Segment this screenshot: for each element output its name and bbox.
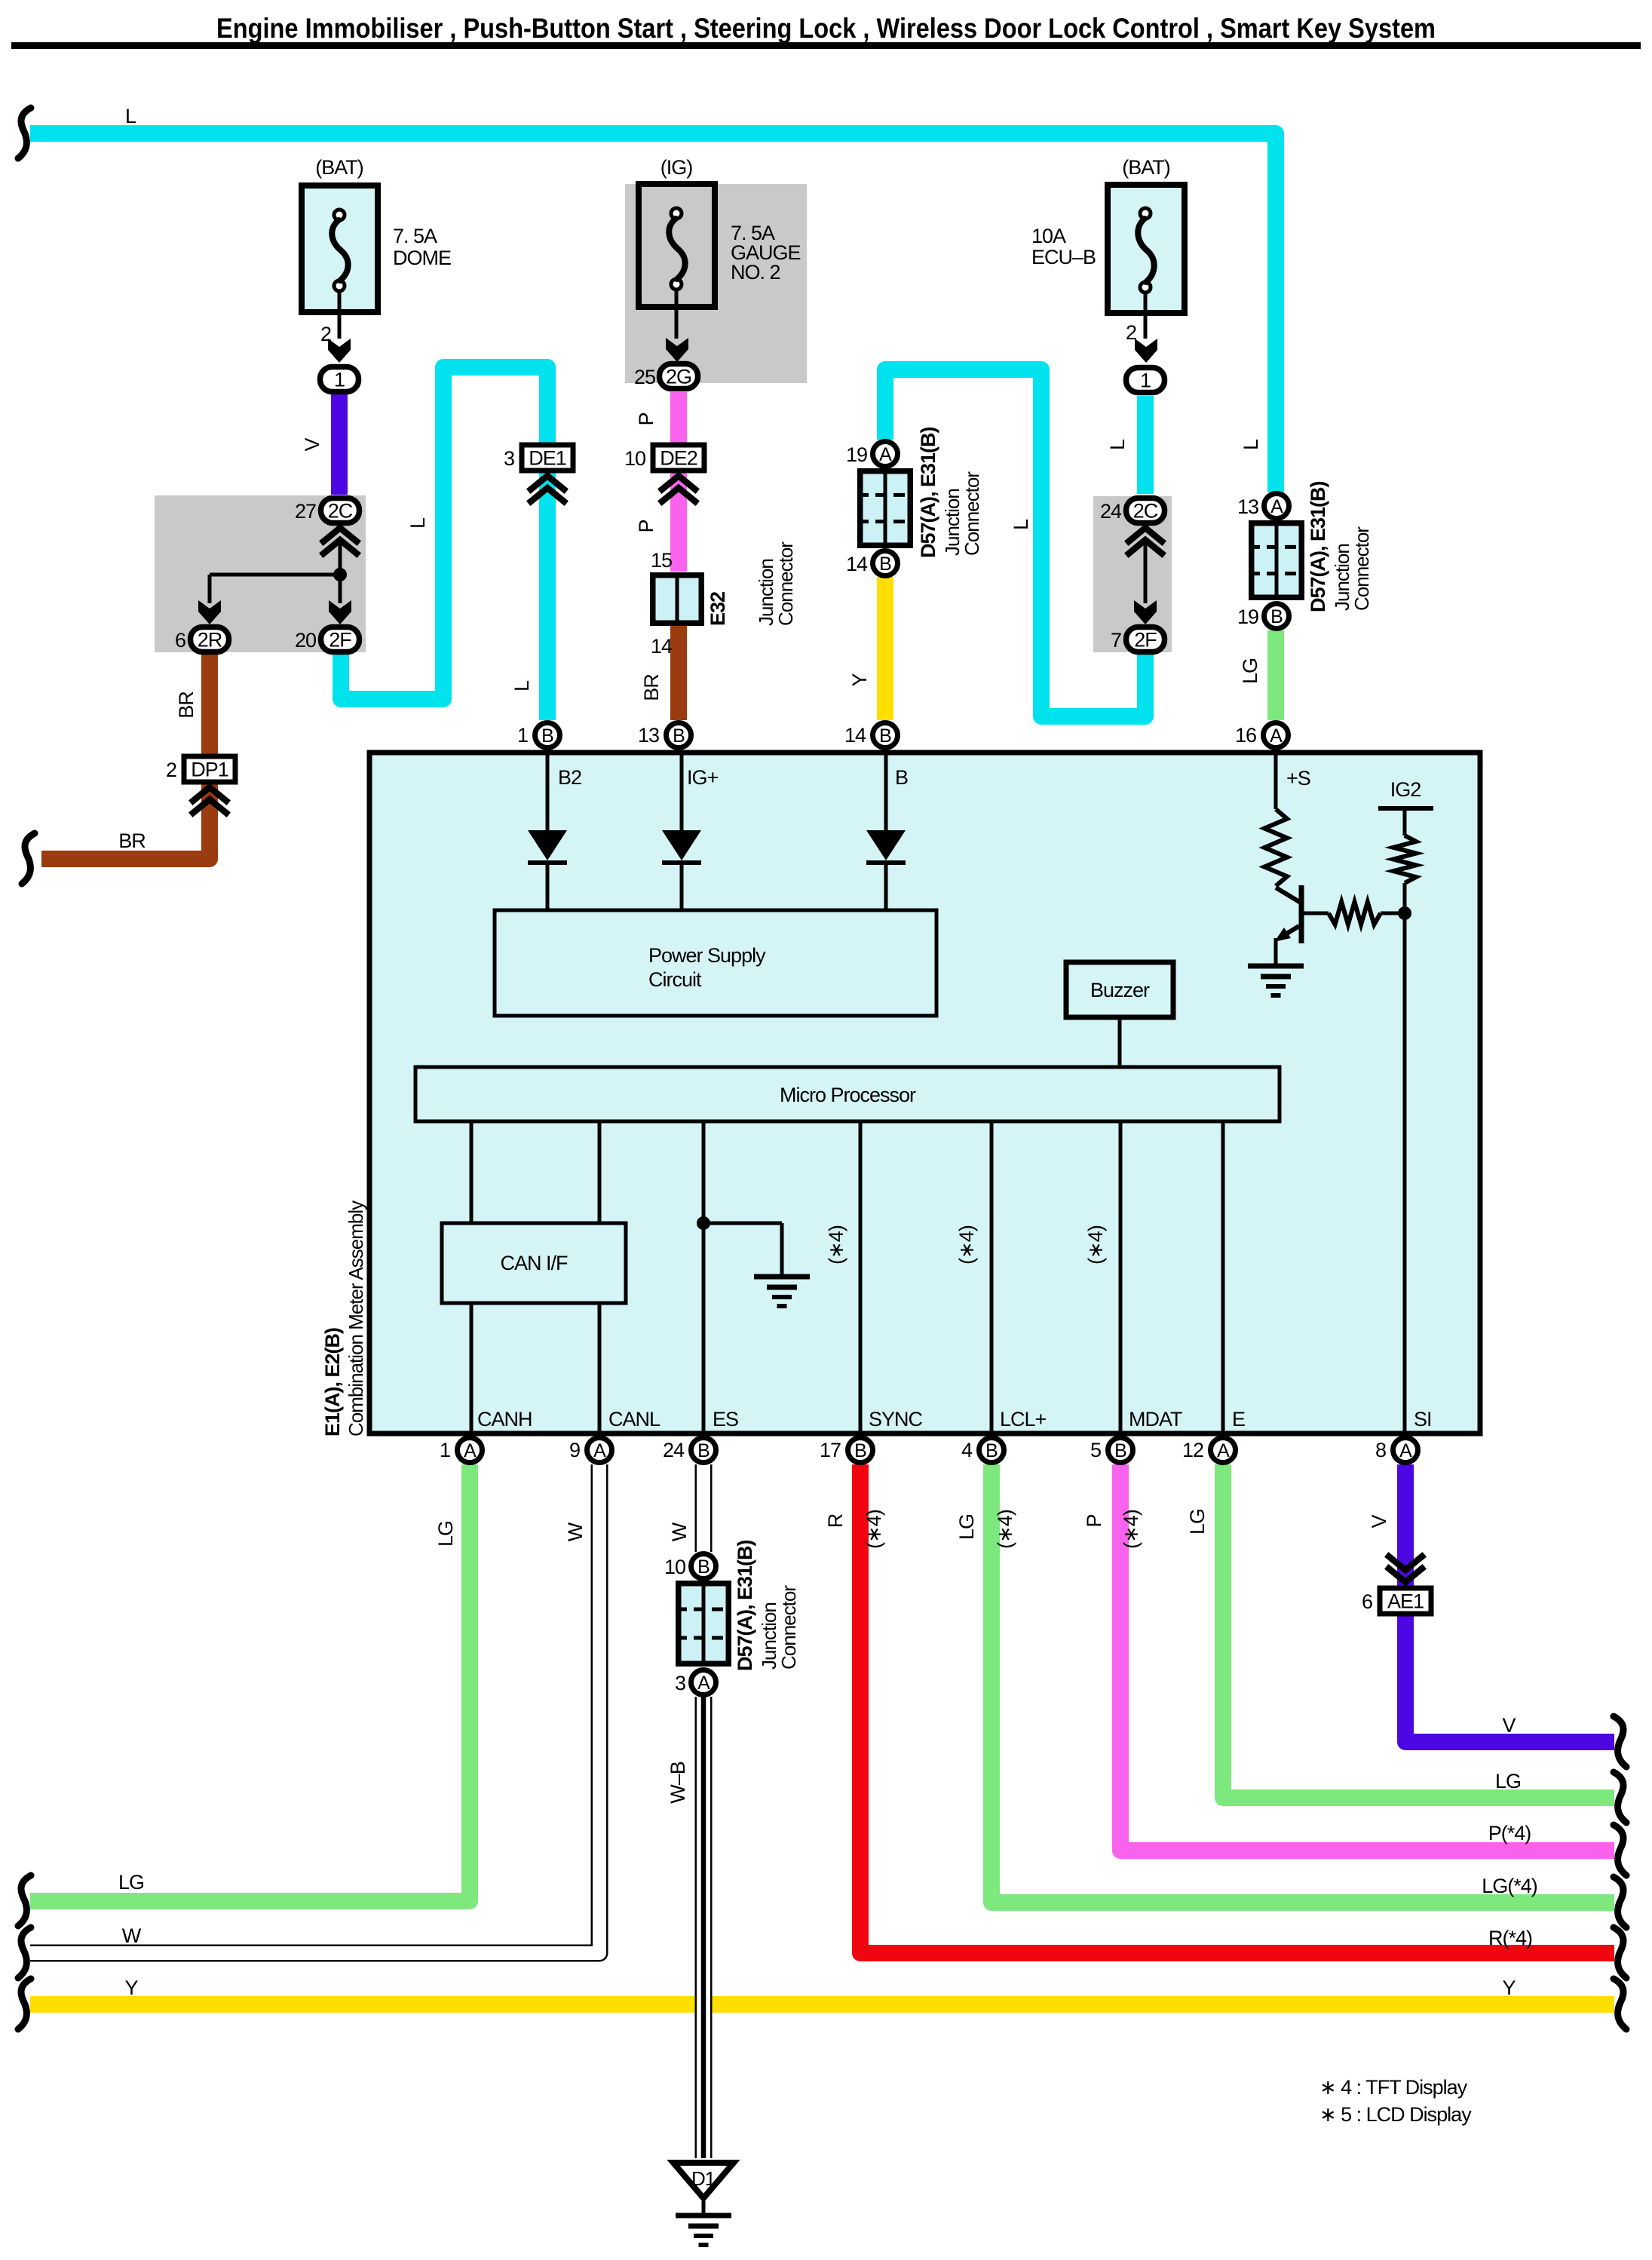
- wire BR from 6 2R via DP1 to left break: [41, 652, 210, 859]
- svg-text:IG+: IG+: [687, 766, 719, 789]
- svg-text:A: A: [697, 1673, 710, 1694]
- svg-text:B: B: [1270, 606, 1283, 627]
- wire cyan S-loop 7 2F to junction connector 19A: [885, 370, 1145, 716]
- curly break right of V wire: [1614, 1716, 1626, 1767]
- wire Y (yellow) 14B junction to pin 14B: [877, 577, 893, 720]
- svg-text:P(*4): P(*4): [1488, 1822, 1531, 1844]
- svg-text:24: 24: [663, 1439, 685, 1461]
- wire micro to pin MDAT: [1119, 1121, 1123, 1434]
- svg-text:B: B: [879, 554, 891, 575]
- svg-text:Y: Y: [1502, 1976, 1516, 1999]
- resistor R-IG2: [1393, 836, 1416, 883]
- wire LG LCL+ pin 4B to right break: [992, 1464, 1614, 1903]
- wire IG2 to resistor: [1403, 808, 1407, 836]
- curly break symbol left of L wire: [18, 108, 31, 158]
- junction connector D57(A),E31(B) box (10B/3A): [676, 1581, 731, 1667]
- wire W ES pin 24B to junction connector 10B: [695, 1464, 713, 1552]
- svg-text:SI: SI: [1414, 1408, 1432, 1431]
- svg-text:2C: 2C: [328, 500, 353, 523]
- pin circle 5 B (MDAT): [1108, 1438, 1133, 1463]
- wire buzzer to micro processor: [1118, 1017, 1122, 1067]
- wire node to SI pin: [1403, 913, 1407, 1434]
- fuse DOME symbol: [332, 210, 348, 291]
- wire cyan loop 20 2F to DE1 to pin 1B: [341, 367, 547, 720]
- svg-text:B: B: [895, 766, 908, 789]
- curly break left of bottom Y: [18, 1979, 31, 2029]
- svg-text:17: 17: [820, 1439, 841, 1461]
- curly break left of W wire: [18, 1927, 31, 1978]
- svg-text:14: 14: [844, 724, 866, 747]
- svg-text:B: B: [541, 725, 553, 747]
- ground symbol (transistor emitter): [1248, 966, 1304, 995]
- pin circle 4 B (LCL+): [979, 1438, 1004, 1463]
- svg-text:+S: +S: [1286, 767, 1310, 790]
- pin circle 17 B (SYNC): [848, 1438, 873, 1463]
- svg-text:P: P: [1083, 1514, 1105, 1527]
- wire link dot to 2R: [210, 573, 340, 577]
- svg-text:13: 13: [1237, 495, 1258, 518]
- junction dot in grey box: [333, 568, 347, 581]
- chevron pair below 2C: [323, 528, 357, 554]
- svg-text:B2: B2: [558, 766, 581, 789]
- ground symbol (ES): [754, 1277, 810, 1306]
- svg-text:B: B: [854, 1440, 866, 1461]
- svg-text:ECU–B: ECU–B: [1031, 246, 1096, 268]
- svg-text:V: V: [1368, 1515, 1390, 1529]
- svg-text:10: 10: [624, 447, 645, 470]
- fuse 10A ECU-B box: [1108, 185, 1185, 313]
- svg-text:CANL: CANL: [608, 1408, 660, 1431]
- svg-text:7. 5A: 7. 5A: [393, 225, 437, 247]
- fuse ECU-B symbol: [1138, 208, 1154, 293]
- pin circle 9 A (CANL): [587, 1438, 612, 1463]
- svg-text:E32: E32: [706, 592, 729, 626]
- svg-text:B: B: [1114, 1440, 1126, 1461]
- svg-text:∗ 4 : TFT Display: ∗ 4 : TFT Display: [1319, 2076, 1468, 2099]
- connector DE1: [522, 445, 573, 471]
- node dot IG2/SI: [1398, 906, 1411, 920]
- svg-text:(∗4): (∗4): [1084, 1225, 1107, 1265]
- connector oval 1 (DOME): [320, 367, 359, 392]
- svg-text:IG2: IG2: [1390, 778, 1421, 801]
- wire LG E pin 12A to right break: [1223, 1464, 1614, 1798]
- svg-text:W–B: W–B: [667, 1762, 689, 1804]
- wire IG+ to diode: [680, 750, 684, 831]
- svg-text:LG: LG: [118, 1871, 144, 1894]
- fuse GAUGE symbol: [669, 208, 685, 290]
- svg-text:Connector: Connector: [1350, 526, 1373, 611]
- svg-text:LCL+: LCL+: [1000, 1408, 1047, 1431]
- junction connector D57(A),E31(B) box (13A/19B): [1249, 520, 1304, 600]
- connector DE2: [653, 445, 704, 471]
- svg-text:Buzzer: Buzzer: [1090, 979, 1150, 1001]
- CAN I/F box: [442, 1223, 626, 1303]
- arrow at DOME fuse output: [328, 339, 351, 363]
- wire cyan ECU-B fuse output 1 to 24 2C: [1137, 396, 1154, 494]
- svg-text:(∗4): (∗4): [863, 1510, 885, 1549]
- arrow at GAUGE fuse output: [666, 338, 688, 362]
- wire fuse ECU-B output line: [1144, 293, 1148, 339]
- connector AE1: [1380, 1588, 1431, 1614]
- svg-text:B: B: [697, 1556, 710, 1578]
- svg-text:Connector: Connector: [774, 541, 797, 626]
- pin circle 16 A (+S): [1264, 723, 1289, 748]
- svg-text:(∗4): (∗4): [825, 1225, 847, 1265]
- svg-text:CANH: CANH: [477, 1408, 532, 1431]
- wire D1 apex to ground: [702, 2200, 706, 2216]
- curly break right of LG(*4) wire: [1614, 1877, 1626, 1927]
- svg-text:A: A: [464, 1440, 477, 1461]
- wire micro to pin SYNC: [859, 1121, 863, 1434]
- wire BR E32 to pin 13B: [670, 626, 687, 720]
- connector oval 24 2C: [1126, 498, 1165, 523]
- svg-text:Connector: Connector: [777, 1585, 800, 1670]
- svg-text:D57(A), E31(B): D57(A), E31(B): [1307, 481, 1329, 612]
- svg-text:24: 24: [1100, 500, 1122, 523]
- wire B to diode: [884, 750, 888, 831]
- svg-text:14: 14: [651, 635, 673, 658]
- svg-text:15: 15: [651, 549, 672, 572]
- svg-text:10A: 10A: [1031, 225, 1066, 247]
- wire CAN I/F to pin CANL: [598, 1303, 602, 1434]
- wire LG CANH pin 1A to left break: [30, 1464, 470, 1901]
- svg-text:3: 3: [504, 447, 514, 470]
- wire B2 to diode: [546, 750, 550, 831]
- wire fuse GAUGE output line: [675, 290, 679, 339]
- svg-text:LG: LG: [1186, 1509, 1209, 1535]
- svg-text:19: 19: [1237, 606, 1258, 628]
- svg-text:20: 20: [295, 629, 316, 652]
- fuse 7.5A DOME box: [302, 186, 378, 312]
- arrow at ECU-B fuse output: [1135, 339, 1157, 363]
- svg-text:D57(A), E31(B): D57(A), E31(B): [734, 1540, 756, 1671]
- grey background (24 2C / 7 2F): [1093, 496, 1172, 652]
- wire collector diagonal: [1276, 888, 1301, 903]
- svg-text:9: 9: [569, 1439, 580, 1461]
- resistor R-base: [1329, 902, 1381, 925]
- svg-text:A: A: [879, 444, 892, 465]
- svg-text:27: 27: [295, 500, 316, 523]
- svg-text:LG: LG: [1239, 658, 1261, 684]
- wire L (cyan) from left break to down right to junction connector 13A: [30, 133, 1276, 492]
- pin circle 13 B (IG+): [667, 723, 691, 748]
- svg-text:Micro Processor: Micro Processor: [780, 1084, 916, 1106]
- svg-text:Connector: Connector: [961, 471, 983, 556]
- svg-text:13: 13: [638, 724, 659, 747]
- svg-text:(BAT): (BAT): [315, 156, 363, 179]
- svg-text:E1(A), E2(B): E1(A), E2(B): [321, 1328, 344, 1437]
- wire V SI pin 8A via AE1 to right break: [1405, 1464, 1614, 1742]
- wire W-B junction connector 3A to ground D1: [695, 1697, 713, 2158]
- svg-text:V: V: [301, 438, 323, 452]
- micro processor box: [415, 1067, 1280, 1121]
- wire ES node to ground: [703, 1222, 782, 1225]
- pin circle 8 A (SI): [1393, 1438, 1418, 1463]
- svg-text:CAN I/F: CAN I/F: [500, 1252, 568, 1274]
- svg-text:LG: LG: [434, 1521, 457, 1547]
- svg-text:B: B: [879, 725, 891, 747]
- svg-text:2R: 2R: [198, 629, 222, 652]
- svg-text:Y: Y: [848, 673, 871, 687]
- svg-text:SYNC: SYNC: [869, 1408, 923, 1431]
- connector oval 1 (ECU-B): [1126, 368, 1165, 393]
- fuse 7.5A GAUGE NO.2 box: [639, 184, 715, 307]
- svg-text:1: 1: [440, 1439, 450, 1461]
- pin circle 19 A: [873, 442, 898, 467]
- wire micro to pin ES: [702, 1121, 706, 1434]
- svg-text:8: 8: [1375, 1439, 1386, 1461]
- svg-text:6: 6: [1362, 1590, 1372, 1613]
- svg-text:(∗4): (∗4): [955, 1225, 978, 1265]
- wire micro to CAN I/F right: [598, 1121, 602, 1223]
- arrow above right 2F: [1134, 600, 1157, 624]
- svg-text:ES: ES: [713, 1408, 738, 1431]
- svg-text:A: A: [1217, 1440, 1230, 1461]
- wire diode B2 to power supply: [546, 863, 550, 910]
- svg-text:B: B: [985, 1440, 998, 1461]
- svg-text:BR: BR: [118, 829, 146, 852]
- svg-text:2: 2: [166, 759, 176, 781]
- wire diode IG+ to power supply: [680, 863, 684, 910]
- pin circle 3 A: [691, 1670, 716, 1695]
- wire P (pink) 25 2G via DE2 to E32: [670, 392, 687, 572]
- svg-text:Combination Meter Assembly: Combination Meter Assembly: [345, 1201, 367, 1437]
- wire emitter to ground: [1274, 938, 1278, 966]
- curly break right of P wire: [1614, 1825, 1626, 1875]
- wire Y (yellow) bottom full width: [30, 1996, 1614, 2013]
- svg-text:E: E: [1232, 1408, 1245, 1431]
- svg-text:DP1: DP1: [191, 759, 228, 781]
- pin circle 1 A (CANH): [458, 1438, 483, 1463]
- svg-text:R: R: [824, 1513, 847, 1528]
- wire link 2C to junction dot: [339, 540, 342, 603]
- svg-text:6: 6: [175, 629, 185, 652]
- wire diode B to power supply: [884, 863, 888, 910]
- curly break right of R wire: [1614, 1927, 1626, 1978]
- connector oval 2G: [660, 364, 698, 389]
- transistor Q1 bar: [1299, 885, 1304, 943]
- svg-text:LG: LG: [1495, 1770, 1521, 1792]
- junction connector D57(A),E31(B) box (19A/14B): [857, 468, 913, 548]
- diode D-B2: [528, 830, 567, 860]
- pin circle 12 A (E): [1211, 1438, 1236, 1463]
- svg-text:L: L: [406, 517, 429, 529]
- wire micro to pin LCL+: [990, 1121, 994, 1434]
- pin circle 14 B: [873, 551, 898, 576]
- arrow above 2F: [329, 600, 351, 624]
- svg-text:25: 25: [634, 366, 655, 388]
- svg-text:Circuit: Circuit: [648, 968, 702, 991]
- svg-text:L: L: [125, 105, 136, 127]
- svg-text:3: 3: [675, 1672, 685, 1694]
- svg-text:1: 1: [334, 369, 345, 391]
- svg-text:BR: BR: [640, 674, 663, 701]
- svg-text:2F: 2F: [1134, 629, 1157, 652]
- svg-text:2: 2: [1126, 321, 1136, 344]
- svg-text:12: 12: [1182, 1439, 1203, 1461]
- svg-text:2F: 2F: [329, 629, 351, 652]
- chevron pair below DP1: [193, 787, 226, 813]
- svg-text:Y: Y: [124, 1976, 138, 1999]
- pin circle 10 B: [691, 1554, 716, 1579]
- wire LG junction 19B to pin 16A: [1267, 630, 1284, 720]
- wire resistor to node: [1381, 912, 1405, 915]
- wire fuse DOME output line: [338, 291, 342, 339]
- svg-text:W: W: [668, 1522, 691, 1541]
- svg-text:19: 19: [846, 443, 867, 466]
- curly break right of bottom Y: [1614, 1979, 1626, 2029]
- svg-text:NO. 2: NO. 2: [731, 261, 780, 284]
- pin circle 14 B (B): [873, 723, 898, 748]
- svg-text:W: W: [122, 1924, 142, 1947]
- svg-text:D57(A), E31(B): D57(A), E31(B): [917, 427, 939, 558]
- svg-text:4: 4: [961, 1439, 973, 1461]
- chevron pair above AE1: [1389, 1556, 1422, 1582]
- svg-text:B: B: [673, 725, 685, 747]
- svg-text:(BAT): (BAT): [1122, 156, 1170, 179]
- wire emitter diagonal with arrow: [1282, 926, 1299, 937]
- svg-text:L: L: [1010, 519, 1032, 530]
- svg-text:L: L: [1240, 439, 1262, 450]
- chevron pair below DE1: [531, 476, 564, 501]
- wire R SYNC pin 17B to right break: [860, 1464, 1614, 1953]
- svg-text:R(*4): R(*4): [1488, 1927, 1532, 1949]
- svg-text:P: P: [635, 520, 657, 532]
- power supply circuit box: [495, 910, 936, 1016]
- svg-text:LG(*4): LG(*4): [1482, 1875, 1537, 1897]
- grey instrument-panel junction block background (2C/2R/2F): [155, 495, 366, 652]
- chevron pair below DE2: [662, 476, 695, 501]
- wire V (violet) fuse DOME output 1 to 27 2C: [331, 394, 348, 495]
- curly break symbol left of BR wire: [22, 833, 35, 884]
- svg-text:DE1: DE1: [529, 447, 566, 470]
- svg-text:B: B: [697, 1440, 710, 1461]
- connector oval 20 2F: [321, 627, 360, 652]
- svg-text:V: V: [1502, 1714, 1516, 1737]
- svg-text:1: 1: [517, 724, 528, 747]
- svg-text:AE1: AE1: [1387, 1590, 1424, 1613]
- svg-text:(∗4): (∗4): [994, 1510, 1016, 1549]
- svg-text:A: A: [1399, 1440, 1412, 1461]
- wire micro to CAN I/F left: [470, 1121, 474, 1223]
- svg-text:(∗4): (∗4): [1120, 1510, 1142, 1549]
- svg-text:Power Supply: Power Supply: [648, 944, 766, 967]
- svg-text:5: 5: [1090, 1439, 1101, 1461]
- svg-text:MDAT: MDAT: [1129, 1408, 1182, 1431]
- connector oval 7 2F: [1126, 627, 1165, 652]
- title underline rule: [11, 42, 1641, 49]
- grey background around GAUGE NO.2 fuse: [625, 184, 807, 383]
- combination meter assembly box: [369, 753, 1480, 1434]
- resistor R+S: [1264, 809, 1287, 886]
- chevron pair below right 2C: [1129, 528, 1162, 554]
- junction connector E32 box: [653, 572, 702, 626]
- svg-text:(IG): (IG): [660, 156, 693, 179]
- pin circle 19 B: [1264, 604, 1289, 629]
- curly break right of LG wire: [1614, 1772, 1626, 1823]
- svg-text:LG: LG: [955, 1514, 978, 1540]
- wire P MDAT pin 5B to right break: [1120, 1464, 1614, 1851]
- connector oval 6 2R: [191, 627, 229, 652]
- wire CAN I/F to pin CANH: [470, 1303, 474, 1434]
- svg-text:2C: 2C: [1133, 500, 1158, 523]
- wire +S to resistor: [1274, 750, 1278, 809]
- svg-text:∗ 5 : LCD Display: ∗ 5 : LCD Display: [1319, 2103, 1472, 2126]
- svg-text:BR: BR: [175, 691, 198, 719]
- diode D-IG+: [662, 830, 701, 860]
- ground symbol D1: [676, 2216, 731, 2245]
- connector oval 27 2C: [321, 498, 360, 523]
- pin circle 1 B (B2): [535, 723, 560, 748]
- IG2 rail: [1378, 806, 1433, 811]
- pin circle 24 B (ES): [691, 1438, 716, 1463]
- ground triangle D1: [673, 2163, 734, 2198]
- svg-text:L: L: [1106, 439, 1129, 450]
- buzzer box: [1066, 962, 1173, 1017]
- svg-text:DE2: DE2: [660, 447, 697, 470]
- node dot ES: [697, 1216, 710, 1230]
- svg-text:A: A: [1270, 725, 1283, 747]
- svg-text:P: P: [635, 412, 657, 425]
- diode D-B: [866, 830, 906, 860]
- pin circle 13 A: [1264, 494, 1289, 519]
- svg-text:14: 14: [846, 553, 868, 575]
- svg-text:16: 16: [1235, 724, 1256, 747]
- svg-text:2G: 2G: [666, 366, 691, 388]
- svg-text:D1: D1: [691, 2167, 716, 2190]
- svg-text:1: 1: [1140, 370, 1151, 392]
- svg-text:W: W: [564, 1522, 587, 1541]
- svg-text:DOME: DOME: [393, 247, 451, 269]
- svg-text:7: 7: [1111, 629, 1121, 652]
- arrow above 2R: [198, 600, 221, 624]
- svg-text:Engine Immobiliser , Push-Butt: Engine Immobiliser , Push-Button Start ,…: [216, 13, 1436, 44]
- wire link right 2C to 2F: [1144, 540, 1148, 603]
- svg-text:10: 10: [664, 1556, 685, 1578]
- wire base to resistor: [1304, 912, 1329, 915]
- svg-text:A: A: [593, 1440, 606, 1461]
- wire resistor IG2 to node: [1403, 883, 1407, 913]
- curly break left of LG wire: [18, 1875, 31, 1926]
- svg-text:A: A: [1270, 496, 1283, 517]
- svg-text:L: L: [510, 680, 533, 691]
- wire W CANL pin 9A to left break: [30, 1464, 599, 1953]
- connector DP1: [184, 756, 235, 782]
- wire micro to pin E: [1221, 1121, 1225, 1434]
